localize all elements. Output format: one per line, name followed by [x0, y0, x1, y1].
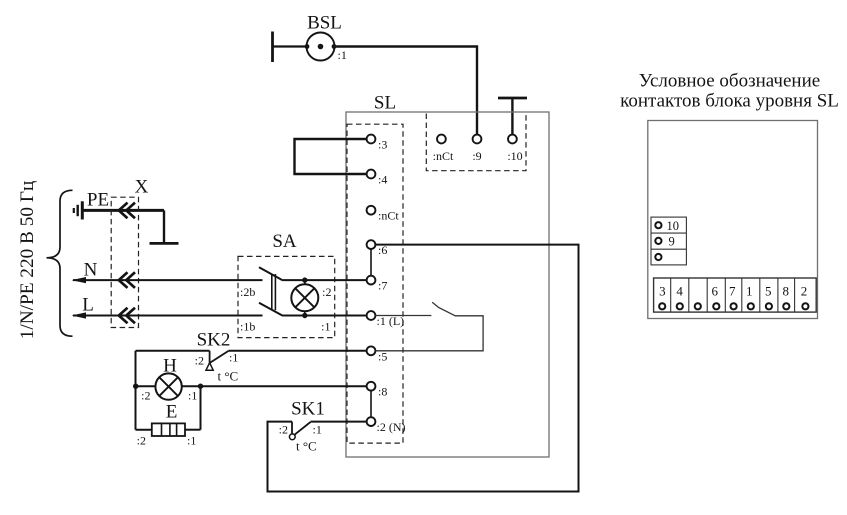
label SK2	[197, 330, 231, 351]
svg-text:8: 8	[782, 283, 789, 298]
wire N	[73, 279, 263, 281]
arrow of net L	[72, 312, 87, 318]
wire link :6 to :7	[370, 249, 372, 276]
svg-text:5: 5	[765, 283, 772, 298]
pin label :1 of H	[188, 389, 197, 403]
label BSL	[307, 13, 342, 34]
legend cell number 8	[782, 283, 789, 298]
terminal :1 (L)	[367, 311, 376, 320]
svg-text::nCt: :nCt	[433, 149, 454, 163]
pin label :2 (N)	[377, 420, 406, 434]
value label t C of SK2	[218, 369, 239, 384]
wire SK1 to :2 (N)	[311, 421, 367, 423]
earth bar	[150, 242, 179, 245]
thermal switch SK2	[206, 351, 229, 370]
legend cell number 1	[746, 283, 753, 298]
arrow of net N	[72, 277, 87, 283]
svg-text:7: 7	[729, 283, 736, 298]
pin label :2 of SK2	[195, 354, 204, 368]
svg-text:контактов блока уровня SL: контактов блока уровня SL	[620, 91, 839, 112]
svg-text::1: :1	[187, 434, 196, 448]
pin label :4	[378, 173, 387, 187]
svg-text:10: 10	[667, 219, 680, 233]
label SK1	[291, 399, 325, 420]
label SA	[272, 231, 297, 252]
pin label :2 of SK1	[279, 423, 288, 437]
legend cell number 3	[659, 283, 666, 298]
internal level contact blade	[432, 302, 455, 316]
svg-text::10: :10	[507, 149, 522, 163]
legend title line 2	[620, 91, 839, 112]
svg-text:SA: SA	[272, 231, 297, 252]
dashed electrode terminal box of SL (top)	[426, 114, 526, 171]
svg-text::2: :2	[322, 285, 331, 299]
legend label 9	[669, 235, 675, 249]
connector chevron X on N wire	[119, 272, 135, 288]
value label t C of SK1	[296, 439, 317, 454]
legend cell number 6	[711, 283, 718, 298]
pin label :1 of SK1	[313, 423, 322, 437]
sensor BSL circle	[305, 33, 337, 61]
connector X dashed box	[111, 197, 138, 327]
pin label :nCt	[378, 209, 399, 223]
svg-text:t °C: t °C	[296, 439, 317, 454]
svg-text::2: :2	[141, 389, 150, 403]
terminal :7	[367, 276, 376, 285]
terminal :9	[473, 135, 482, 144]
legend terminal blank	[655, 254, 661, 260]
pin label :1 of BSL	[338, 48, 347, 62]
svg-text:SK2: SK2	[197, 330, 231, 351]
junction node upper lamp tap	[302, 277, 307, 282]
legend cell number 4	[676, 283, 683, 298]
legend title line 1	[639, 71, 820, 92]
connector chevron X on L wire	[119, 308, 135, 324]
svg-text:4: 4	[676, 283, 683, 298]
svg-text:BSL: BSL	[307, 13, 342, 34]
svg-text:6: 6	[711, 283, 718, 298]
svg-text::1: :1	[313, 423, 322, 437]
pin label :2b	[240, 285, 255, 299]
label SL	[374, 93, 396, 114]
svg-text:PE: PE	[87, 190, 109, 211]
junction node lower lamp tap	[302, 313, 307, 318]
svg-text::2: :2	[279, 423, 288, 437]
terminal :5	[367, 346, 376, 355]
internal level contact wire from :1 (L)	[375, 315, 431, 317]
terminal :10	[508, 135, 517, 144]
rotated net label 1/N/PE 220 V 50 Hz	[17, 181, 38, 340]
pin label :1 of E	[187, 434, 196, 448]
legend terminal 10	[655, 222, 661, 228]
wire SA upper to :7	[283, 279, 367, 281]
svg-text:Условное обозначение: Условное обозначение	[639, 71, 820, 92]
dashed terminal strip of SL (left column)	[347, 124, 403, 443]
svg-text::nCt: :nCt	[378, 209, 399, 223]
svg-text::8: :8	[378, 385, 387, 399]
label N	[84, 260, 98, 281]
pin label :2 of E	[137, 434, 146, 448]
wire loop bottom from :6	[268, 245, 579, 492]
thermal switch SK1	[289, 422, 310, 440]
wire SK2 to :5	[229, 350, 367, 352]
terminal :8	[367, 382, 376, 391]
wire loop joining :3 and :4	[295, 139, 367, 174]
wire H branch to SK2	[136, 350, 210, 352]
pin label :1 of SA	[321, 320, 330, 334]
label E	[166, 402, 178, 423]
pin label :8	[378, 385, 387, 399]
legend terminal 9	[655, 238, 661, 244]
svg-text:E: E	[166, 402, 178, 423]
pin label :1 of SK2	[229, 351, 238, 365]
svg-text::7: :7	[378, 279, 387, 293]
switch SA dashed box	[238, 256, 335, 337]
terminal :4	[367, 170, 376, 179]
pin label :6	[378, 243, 387, 257]
svg-text::1: :1	[229, 351, 238, 365]
wire left rail of H E branch	[135, 351, 137, 430]
pin label :7	[378, 279, 387, 293]
svg-text:SK1: SK1	[291, 399, 325, 420]
svg-text:2: 2	[801, 283, 808, 298]
legend cell number 7	[729, 283, 736, 298]
wire L	[73, 315, 263, 317]
svg-text:9: 9	[669, 235, 675, 249]
pin label :1 (L)	[377, 314, 405, 328]
SA lower blade	[259, 303, 283, 316]
svg-text::3: :3	[378, 138, 387, 152]
terminal :6	[367, 240, 376, 249]
wire BSL to node above :9	[334, 47, 477, 135]
svg-text:SL: SL	[374, 93, 396, 114]
svg-text:3: 3	[659, 283, 666, 298]
svg-text::4: :4	[378, 173, 387, 187]
wire BSL bar to circle	[273, 45, 308, 47]
wire SA lower to :1 (L)	[283, 315, 367, 317]
electrode bar of BSL sensor	[271, 32, 274, 63]
svg-text:1: 1	[746, 283, 753, 298]
label PE	[87, 190, 109, 211]
pin label :2 of H	[141, 389, 150, 403]
block SL outline	[346, 112, 549, 457]
terminal :2 (N)	[367, 417, 376, 426]
lamp H	[136, 373, 201, 399]
junction node H left	[133, 384, 138, 389]
connector chevron X on PE wire	[119, 203, 135, 219]
legend block outline	[648, 121, 818, 319]
wire link :8 to :2 (N)	[370, 390, 372, 417]
legend cell number 5	[765, 283, 772, 298]
svg-text::1: :1	[321, 320, 330, 334]
wire H to :8	[201, 385, 367, 387]
svg-text::1: :1	[338, 48, 347, 62]
legend label 10	[667, 219, 680, 233]
internal wire level contact to :5	[375, 316, 483, 351]
terminal :nCt (left)	[367, 206, 376, 215]
legend side terminal group box	[651, 217, 686, 265]
svg-text::2 (N): :2 (N)	[377, 420, 406, 434]
svg-text:N: N	[84, 260, 98, 281]
pin label :2 of SA	[322, 285, 331, 299]
SA upper blade	[259, 267, 283, 280]
svg-text:t °C: t °C	[218, 369, 239, 384]
legend bottom terminal row box	[654, 278, 817, 312]
svg-text::2: :2	[137, 434, 146, 448]
wire PE	[83, 209, 164, 212]
svg-text::1: :1	[188, 389, 197, 403]
label L	[82, 295, 94, 316]
junction node H right	[198, 384, 203, 389]
svg-text::1b: :1b	[240, 320, 255, 334]
label X	[135, 177, 149, 198]
electrode T symbol above :10	[498, 98, 527, 134]
svg-text::9: :9	[472, 149, 481, 163]
svg-text:X: X	[135, 177, 149, 198]
terminal :nCt (top)	[437, 135, 446, 144]
pin label :5	[378, 349, 387, 363]
svg-text::2b: :2b	[240, 285, 255, 299]
pin label :nCt (top)	[433, 149, 454, 163]
svg-text::2: :2	[195, 354, 204, 368]
brace grouping supply lines	[47, 190, 73, 336]
terminal :3	[367, 135, 376, 144]
svg-text:1/N/PE 220 В 50 Гц: 1/N/PE 220 В 50 Гц	[17, 181, 38, 340]
svg-text:L: L	[82, 295, 94, 316]
label H	[163, 356, 177, 377]
heater E	[136, 423, 201, 436]
legend cell number 2	[801, 283, 808, 298]
wire PE down to earth bar	[163, 210, 165, 243]
pin label :3	[378, 138, 387, 152]
pin label :10	[507, 149, 522, 163]
pin label :1b	[240, 320, 255, 334]
pin label :9	[472, 149, 481, 163]
PE earth symbol	[74, 201, 83, 219]
lamp inside SA	[291, 280, 318, 315]
wire E right rail up to H node	[200, 386, 202, 430]
legend row terminal circles	[659, 303, 808, 309]
SA coupling bars	[272, 274, 276, 310]
